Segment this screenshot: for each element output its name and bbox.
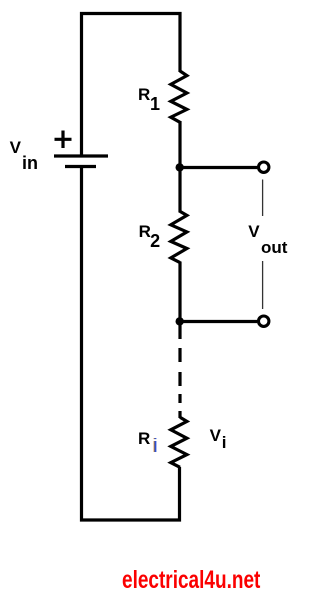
label R1: R — [138, 86, 150, 103]
label Vout: out subscript — [261, 239, 287, 256]
wire: node A down to R2 — [178, 168, 181, 213]
wire: node B stub downward — [178, 322, 181, 340]
wire: left leg below battery + bottom wire + right leg up to Ri — [82, 167, 180, 521]
node B junction dot — [176, 317, 184, 325]
label Vin: V — [10, 139, 21, 156]
wire: node A to upper output terminal — [180, 166, 258, 169]
battery plus sign — [55, 131, 72, 149]
wire: node B to lower output terminal — [180, 320, 258, 323]
wire: dashed continuation to Ri — [178, 348, 181, 418]
label Ri: R — [138, 430, 150, 447]
label R1: 1 subscript — [150, 96, 160, 113]
measurement lead: upper terminal to Vout label — [262, 180, 264, 217]
upper output terminal — [259, 162, 269, 172]
label Vout: V — [248, 223, 259, 240]
label Ri: i subscript (colored) — [152, 438, 158, 455]
lower output terminal — [259, 316, 269, 326]
battery V1 positive long plate — [54, 154, 108, 157]
label Vi: i subscript — [222, 434, 227, 451]
label Vin: in subscript — [22, 155, 38, 172]
measurement lead: Vout label to lower terminal — [262, 261, 264, 309]
resistor R1 — [171, 71, 187, 122]
resistor Ri — [171, 417, 187, 467]
wire: R2 bottom to node B — [178, 262, 181, 322]
label Vi: V — [210, 427, 221, 444]
label R2: R — [139, 223, 151, 240]
battery V1 negative short plate — [65, 165, 96, 168]
label R2: 2 subscript — [150, 233, 160, 250]
resistor R2 — [171, 211, 187, 262]
wire: R1 bottom to node A — [178, 121, 181, 168]
watermark electrical4u.net — [122, 568, 260, 593]
node A junction dot — [176, 163, 184, 171]
wire: top + left leg to battery + right leg down to R1 — [82, 14, 181, 158]
